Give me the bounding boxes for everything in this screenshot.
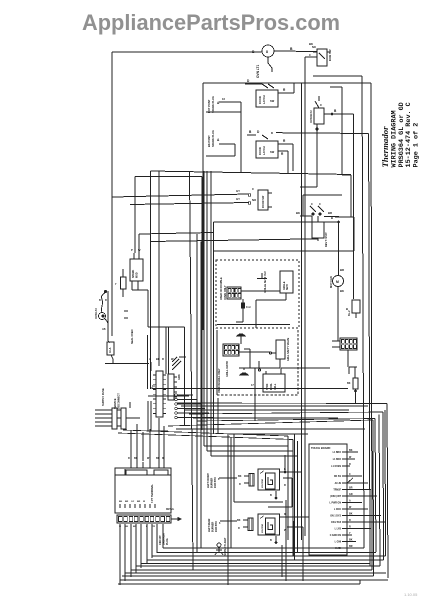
svg-text:C: C <box>252 187 254 191</box>
svg-text:B: B <box>334 109 337 113</box>
module SPARK XFMR <box>130 233 318 427</box>
svg-text:SEAL OVEN: SEAL OVEN <box>131 329 134 344</box>
wire middle vertical bus <box>190 171 298 570</box>
svg-text:1.10.05: 1.10.05 <box>404 592 418 597</box>
svg-text:L OCK: L OCK <box>334 509 341 511</box>
wire bottom mid verticals <box>282 500 286 581</box>
box touch outer 1 <box>227 434 229 585</box>
ignitor ROT OVEN SPARK PLUG <box>206 96 241 113</box>
svg-text:R: R <box>284 484 286 487</box>
box relay enclosure 2 <box>231 437 285 548</box>
svg-text:C: C <box>311 202 313 206</box>
lamp OVN LT1 <box>252 45 274 78</box>
relay IGNITION MODULE 1 <box>238 455 302 507</box>
wire belt 2 <box>148 395 189 397</box>
svg-text:R: R <box>238 527 240 530</box>
svg-text:BR: BR <box>137 501 141 503</box>
svg-text:16: 16 <box>152 385 155 388</box>
wire right border 3 <box>330 87 351 220</box>
wire belt 12 <box>118 433 293 440</box>
svg-text:D: D <box>257 130 260 134</box>
connector strip P2 <box>168 374 177 400</box>
svg-text:R: R <box>128 457 130 460</box>
svg-text:P: P <box>131 248 133 252</box>
svg-text:AB: AB <box>102 328 106 331</box>
svg-text:BK: BK <box>349 513 353 516</box>
svg-text:B: B <box>270 494 272 497</box>
svg-text:ON 2 BUI: ON 2 BUI <box>331 522 341 524</box>
svg-text:C: C <box>319 202 321 206</box>
svg-text:L1 OVEN: L1 OVEN <box>331 466 341 468</box>
icon pilot light <box>215 537 227 556</box>
svg-text:D: D <box>247 79 250 83</box>
svg-text:REV T-STAT: REV T-STAT <box>324 232 328 247</box>
svg-text:C: C <box>309 53 311 57</box>
svg-text:BR: BR <box>349 545 353 548</box>
switch thermal B <box>347 367 358 403</box>
svg-text:OVN LT1: OVN LT1 <box>256 65 260 78</box>
svg-text:BR: BR <box>125 501 129 503</box>
svg-text:B: B <box>249 130 252 134</box>
svg-text:GD: GD <box>349 493 353 496</box>
svg-text:GY: GY <box>131 501 135 503</box>
svg-text:BK: BK <box>125 526 129 528</box>
svg-text:BK: BK <box>349 449 353 452</box>
svg-text:17: 17 <box>251 384 254 387</box>
box relay enclosure 1 <box>234 434 308 502</box>
svg-text:GRLL SAFTY VALVE: GRLL SAFTY VALVE <box>287 337 290 361</box>
svg-text:W: W <box>147 457 150 460</box>
wire right border 2 <box>203 83 372 570</box>
wire mid rail 3 <box>135 177 202 431</box>
wire belt 10 <box>176 428 365 430</box>
svg-text:A: A <box>349 500 351 503</box>
svg-text:B: B <box>346 307 348 311</box>
terminal box TB <box>115 457 171 513</box>
svg-text:B: B <box>270 539 272 542</box>
svg-text:B: B <box>99 299 101 302</box>
wire riser V5 <box>382 412 385 560</box>
svg-text:USED IN GRILL ONLY: USED IN GRILL ONLY <box>218 368 221 393</box>
label LEFT REAR BURNER <box>208 518 237 532</box>
label SEAL OVEN <box>131 329 134 344</box>
wire belt 7 <box>193 417 338 419</box>
svg-text:BR: BR <box>349 487 353 490</box>
svg-text:9100 BTU: 9100 BTU <box>214 477 217 488</box>
svg-text:R: R <box>283 88 286 92</box>
relay OVN RLY <box>300 96 354 299</box>
wire riser V6 <box>379 415 380 567</box>
svg-text:AC-IN: AC-IN <box>335 482 342 485</box>
svg-text:DK SS: DK SS <box>334 476 341 478</box>
connector pins column <box>175 394 213 419</box>
svg-text:SHTF: SHTF <box>287 283 289 290</box>
power SUPPLY FUSE cord <box>95 388 140 429</box>
svg-text:PLUG: PLUG <box>166 538 169 545</box>
svg-text:BK: BK <box>156 357 160 361</box>
motor FAN <box>329 250 344 342</box>
svg-text:R: R <box>162 357 164 361</box>
connector grid right <box>332 338 357 367</box>
svg-text:LATCH: LATCH <box>262 95 266 104</box>
fuse 10A <box>105 341 149 364</box>
wire touch board leads <box>347 449 385 548</box>
svg-text:DOR SW: DOR SW <box>328 49 332 61</box>
svg-text:DISCONNECT: DISCONNECT <box>118 393 121 409</box>
svg-text:BK: BK <box>134 457 138 460</box>
wire belt 6 <box>189 412 383 414</box>
connector J2 grid <box>227 287 241 299</box>
svg-text:GRLL: GRLL <box>275 383 277 390</box>
svg-text:IGNITOR: IGNITOR <box>262 479 264 488</box>
svg-text:B: B <box>290 47 293 51</box>
svg-text:BR: BR <box>156 457 160 460</box>
connector CONT BOARD strip P1 <box>153 371 166 417</box>
svg-text:GRILLE: GRILLE <box>284 281 286 290</box>
svg-text:GRILLE SHTF VLV: GRILLE SHTF VLV <box>264 271 267 293</box>
svg-text:C-H: C-H <box>246 306 251 309</box>
box USED IN GRILL ONLY <box>217 330 298 395</box>
wire belt 3 <box>177 402 387 405</box>
svg-text:6: 6 <box>219 522 221 525</box>
svg-text:9100 BTU: 9100 BTU <box>215 521 218 532</box>
svg-text:ON 1 DYS: ON 1 DYS <box>330 516 341 518</box>
svg-text:DETAIL: DETAIL <box>166 508 175 511</box>
electrode grill ignitor 2 <box>239 368 280 375</box>
wire bottom rails <box>118 548 388 584</box>
electrode grill ignitor 1 <box>237 334 250 368</box>
svg-text:SUPPLY FUSE: SUPPLY FUSE <box>101 388 105 406</box>
svg-text:Page 1 of 2: Page 1 of 2 <box>412 123 420 168</box>
wire riser V8 <box>372 420 375 576</box>
svg-text:D: D <box>271 131 273 135</box>
svg-text:(OSC) INT: (OSC) INT <box>330 496 341 498</box>
wire riser V9 <box>384 410 387 556</box>
svg-text:R: R <box>349 519 351 522</box>
svg-text:TOUCH BOARD: TOUCH BOARD <box>311 446 331 450</box>
thermostat REV T-STAT <box>214 195 355 434</box>
svg-text:R: R <box>281 152 284 156</box>
label CIRCUIT BREAKER PLUG <box>159 533 169 545</box>
svg-text:L1 BRO: L1 BRO <box>333 452 342 454</box>
svg-text:SPARK PLUG: SPARK PLUG <box>211 96 215 113</box>
svg-text:R: R <box>239 483 241 486</box>
svg-text:W: W <box>349 456 352 459</box>
wire hub risers <box>148 171 175 431</box>
svg-text:R: R <box>349 526 351 529</box>
svg-text:C: C <box>349 473 351 476</box>
svg-text:BK: BK <box>296 211 300 215</box>
svg-text:USED ON DOUBLE: USED ON DOUBLE <box>220 277 223 300</box>
box touch outer 2 <box>295 434 298 560</box>
wire belt 8 <box>197 419 375 422</box>
wire right border 1 <box>313 76 364 548</box>
svg-text:W: W <box>349 506 352 509</box>
svg-text:BK: BK <box>340 289 344 293</box>
wire lamp to door switch <box>274 47 317 52</box>
svg-text:OVN RLY2: OVN RLY2 <box>309 110 313 123</box>
svg-text:MOT FAN: MOT FAN <box>329 276 333 288</box>
svg-text:R: R <box>283 139 286 143</box>
svg-text:W: W <box>143 501 146 503</box>
svg-text:A: A <box>217 138 220 142</box>
svg-text:BR: BR <box>328 211 332 215</box>
wire touch board AC jumper <box>347 478 353 483</box>
valve GRILL SAFETY <box>239 337 290 368</box>
svg-text:W: W <box>284 529 287 532</box>
svg-text:L LYB: L LYB <box>335 529 342 531</box>
wire top-left border <box>112 52 262 336</box>
wire right border 5 <box>369 134 370 567</box>
svg-text:GRN: GRN <box>178 374 181 380</box>
fuse igniter F2 <box>115 269 126 297</box>
wire belt 4 <box>181 405 368 407</box>
box OVEN CONTROL (used on double oven) <box>216 260 299 328</box>
wire riser V4 <box>387 404 388 579</box>
relay IGNITION MODULE 2 <box>237 513 309 581</box>
svg-text:BR: BR <box>340 268 344 272</box>
svg-text:Y: Y <box>349 532 351 535</box>
svg-text:3 PT TERMINAL: 3 PT TERMINAL <box>151 484 154 503</box>
switch DOOR LATCH 2 <box>247 130 293 174</box>
svg-text:R: R <box>162 457 164 460</box>
svg-text:BK: BK <box>309 42 313 46</box>
connector grill grid <box>223 344 239 356</box>
svg-text:DOOR SW: DOOR SW <box>262 195 265 208</box>
wire rail D <box>271 131 369 135</box>
svg-text:BK: BK <box>119 501 123 503</box>
connector CB strip <box>117 508 181 523</box>
switch DOOR LATCH 1 <box>245 79 294 107</box>
label LEFT FRONT BURNER <box>207 473 237 488</box>
wire belt 9 <box>168 420 373 426</box>
wire bus vertical pair from door switch <box>302 57 314 540</box>
svg-text:6: 6 <box>218 478 220 481</box>
svg-text:10-A: 10-A <box>109 347 112 353</box>
wire CB fanout <box>119 524 163 585</box>
svg-text:DOOR: DOOR <box>258 147 262 155</box>
svg-text:GY: GY <box>236 197 240 201</box>
svg-text:TRNSF: TRNSF <box>333 490 341 492</box>
svg-text:7: 7 <box>115 282 117 286</box>
svg-text:R: R <box>349 463 351 466</box>
board TOUCH PANEL <box>309 444 347 555</box>
wire riser V7 <box>375 419 376 553</box>
wire belt 1 <box>152 388 348 390</box>
svg-text:C: C <box>320 103 322 107</box>
svg-text:LATCH: LATCH <box>262 146 266 155</box>
svg-text:SPARK PLUG: SPARK PLUG <box>211 130 215 147</box>
svg-text:BK PONT: BK PONT <box>207 135 211 147</box>
svg-text:NO: NO <box>252 198 257 202</box>
svg-text:IGNITOR: IGNITOR <box>262 524 264 533</box>
switch HI-LIMIT TH <box>346 300 360 318</box>
svg-text:PR: PR <box>152 526 155 528</box>
svg-text:MOD: MOD <box>136 272 139 278</box>
svg-text:DOOR: DOOR <box>258 96 262 104</box>
svg-text:A: A <box>149 357 151 361</box>
wire belt 11 <box>123 430 288 436</box>
svg-text:L GMI: L GMI <box>335 542 342 544</box>
svg-text:SW: SW <box>270 99 275 103</box>
svg-text:L1 BKD: L1 BKD <box>333 459 342 461</box>
ignitor BK OVEN SPARK PLUG <box>206 130 235 156</box>
svg-text:L PWR ON: L PWR ON <box>330 503 342 505</box>
svg-text:Thermador: Thermador <box>380 126 390 168</box>
svg-text:M: M <box>336 280 339 284</box>
svg-text:BK: BK <box>237 519 241 522</box>
switch DOOR SW1 <box>309 42 332 66</box>
svg-text:GRILL IGNTR: GRILL IGNTR <box>226 361 229 377</box>
wire central box bottom rail <box>217 324 290 326</box>
switch DOOR SW2 <box>112 187 272 210</box>
svg-text:8: 8 <box>266 50 268 54</box>
svg-text:BK: BK <box>347 382 351 385</box>
module SPARK GRILL <box>251 361 330 421</box>
diode C-H <box>236 299 251 322</box>
svg-text:R: R <box>105 299 107 302</box>
wire drops to terminal box <box>131 418 164 461</box>
svg-text:AppliancePartsPros.com: AppliancePartsPros.com <box>82 10 340 35</box>
svg-text:C AND ON: C AND ON <box>330 534 342 537</box>
svg-text:SPRK: SPRK <box>267 383 269 390</box>
svg-text:KL-2: KL-2 <box>348 310 351 316</box>
svg-text:OVN LT2: OVN LT2 <box>94 308 98 319</box>
svg-text:BK: BK <box>349 539 353 542</box>
wire belt 5 <box>185 409 349 411</box>
svg-text:NO PILOT LIGHT: NO PILOT LIGHT <box>225 537 227 556</box>
lamp OVN LT2 <box>94 291 128 343</box>
svg-text:GY: GY <box>236 189 240 193</box>
ground chassis <box>172 357 186 380</box>
svg-text:SW: SW <box>270 150 275 154</box>
svg-text:16: 16 <box>222 97 225 101</box>
valve GRILLE SHUTOFF <box>241 271 293 328</box>
svg-text:ROT PONT: ROT PONT <box>207 99 211 113</box>
wire mid rail 1 <box>151 112 352 242</box>
svg-text:BK: BK <box>238 475 242 478</box>
